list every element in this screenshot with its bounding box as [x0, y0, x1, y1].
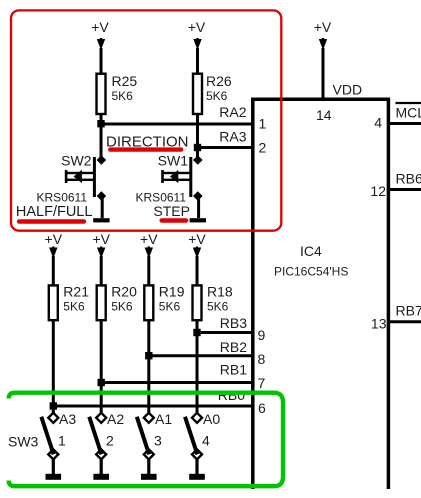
svg-text:R21: R21 — [63, 284, 89, 300]
svg-text:1: 1 — [259, 116, 267, 132]
svg-text:+V: +V — [92, 231, 110, 247]
svg-text:1: 1 — [58, 433, 66, 449]
svg-text:RA3: RA3 — [219, 129, 246, 145]
svg-text:RB2: RB2 — [220, 339, 247, 355]
svg-text:7: 7 — [258, 375, 266, 391]
svg-text:HALF/FULL: HALF/FULL — [16, 204, 93, 220]
svg-text:9: 9 — [258, 327, 266, 343]
svg-text:R20: R20 — [111, 284, 137, 300]
svg-text:5K6: 5K6 — [112, 89, 134, 103]
svg-text:5K6: 5K6 — [206, 89, 228, 103]
svg-text:VDD: VDD — [333, 82, 363, 98]
svg-text:5K6: 5K6 — [207, 300, 229, 314]
svg-text:12: 12 — [370, 183, 386, 199]
svg-text:4: 4 — [202, 433, 210, 449]
svg-text:14: 14 — [316, 107, 332, 123]
svg-text:RB7: RB7 — [396, 303, 421, 319]
svg-text:RB0: RB0 — [218, 387, 245, 403]
svg-text:R26: R26 — [206, 73, 232, 89]
svg-text:A3: A3 — [59, 411, 76, 427]
svg-text:5K6: 5K6 — [111, 300, 133, 314]
svg-text:MCL: MCL — [396, 105, 421, 121]
svg-text:5K6: 5K6 — [63, 300, 85, 314]
svg-text:R18: R18 — [207, 284, 233, 300]
svg-text:+V: +V — [45, 231, 63, 247]
svg-text:KRS0611: KRS0611 — [37, 191, 88, 205]
svg-text:PIC16C54'HS: PIC16C54'HS — [274, 265, 348, 279]
svg-text:R25: R25 — [112, 73, 138, 89]
svg-text:8: 8 — [258, 351, 266, 367]
svg-text:RA2: RA2 — [219, 104, 246, 120]
svg-text:+V: +V — [140, 231, 158, 247]
svg-text:3: 3 — [154, 433, 162, 449]
svg-text:5K6: 5K6 — [159, 300, 181, 314]
svg-text:2: 2 — [106, 433, 114, 449]
svg-text:2: 2 — [259, 140, 267, 156]
svg-text:IC4: IC4 — [300, 243, 322, 259]
svg-text:4: 4 — [374, 115, 382, 131]
svg-text:SW3: SW3 — [8, 434, 39, 450]
svg-text:STEP: STEP — [153, 203, 190, 219]
svg-text:R19: R19 — [159, 284, 185, 300]
svg-text:13: 13 — [371, 316, 387, 332]
svg-text:A0: A0 — [203, 411, 220, 427]
svg-text:A2: A2 — [107, 411, 124, 427]
svg-text:+V: +V — [188, 231, 206, 247]
svg-text:+V: +V — [314, 19, 332, 35]
svg-text:+V: +V — [91, 19, 109, 35]
svg-text:RB6: RB6 — [396, 171, 421, 187]
svg-text:6: 6 — [258, 400, 266, 416]
svg-text:SW2: SW2 — [61, 153, 92, 169]
svg-text:RB3: RB3 — [220, 315, 247, 331]
svg-text:+V: +V — [188, 19, 206, 35]
svg-text:A1: A1 — [155, 411, 172, 427]
svg-text:SW1: SW1 — [158, 153, 189, 169]
svg-text:RB1: RB1 — [220, 362, 247, 378]
